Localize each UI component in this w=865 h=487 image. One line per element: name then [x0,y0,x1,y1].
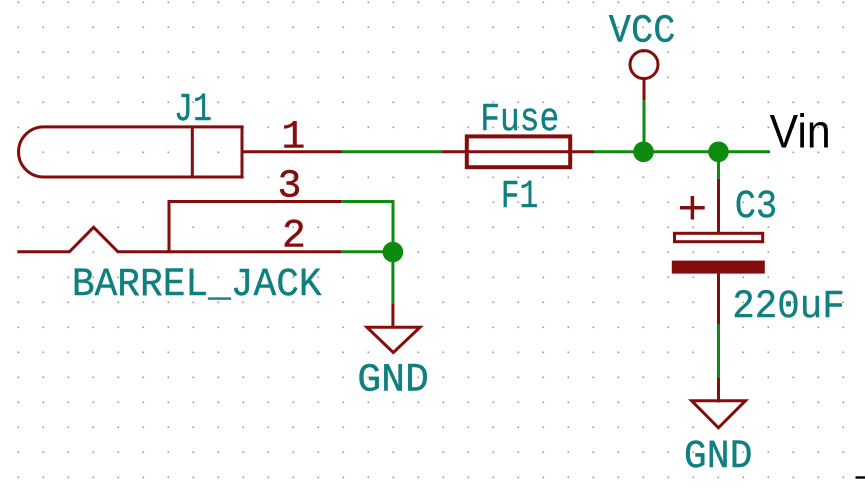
GND pin (left) [391,304,394,327]
svg-text:Fuse: Fuse [480,98,559,143]
wire pin1 to fuse [342,150,442,153]
plus sign [680,206,705,210]
capacitor C3 top plate [675,233,763,241]
fuse through line [442,150,594,153]
ground symbol right [692,401,746,428]
capacitor C3 top pin [717,179,720,232]
svg-text:220uF: 220uF [732,285,844,330]
wire junction to cap [717,152,720,179]
fuse F1 body [467,136,570,167]
J1 pin 3 lead (bent) [169,202,341,252]
svg-text:J1: J1 [174,88,212,133]
J1 sleeve contact with bump (pin 2 lead) [17,227,341,252]
junction at pin2 node [383,242,404,263]
svg-text:GND: GND [357,358,429,403]
sheet border fragment [856,476,865,478]
J1 pin 1 lead [242,150,342,153]
power symbol VCC circle [630,51,658,79]
wire fuse to Vin [594,150,770,153]
wire pin2 to junction [341,250,393,253]
wire cap to GND [717,324,720,378]
capacitor C3 bottom plate [672,261,765,274]
wire pin3 to vertical [341,202,393,253]
svg-text:F1: F1 [501,175,539,220]
capacitor C3 bottom pin [717,274,720,324]
VCC pin [643,79,646,101]
svg-text:2: 2 [282,215,306,260]
svg-text:Vin: Vin [770,105,831,158]
GND pin (right) [717,378,720,401]
junction at cap node [708,142,729,163]
wire VCC to bus [643,100,646,152]
svg-text:3: 3 [277,165,301,210]
connector J1 barrel jack body [19,127,242,177]
junction at VCC node [633,142,654,163]
svg-text:1: 1 [281,115,305,160]
svg-text:VCC: VCC [609,9,676,54]
svg-text:GND: GND [684,435,753,480]
ground symbol left [367,327,420,352]
svg-text:BARREL_JACK: BARREL_JACK [72,263,322,308]
J1 body divider line [191,127,194,177]
svg-text:C3: C3 [735,185,778,230]
wire junction down to GND [391,252,394,304]
